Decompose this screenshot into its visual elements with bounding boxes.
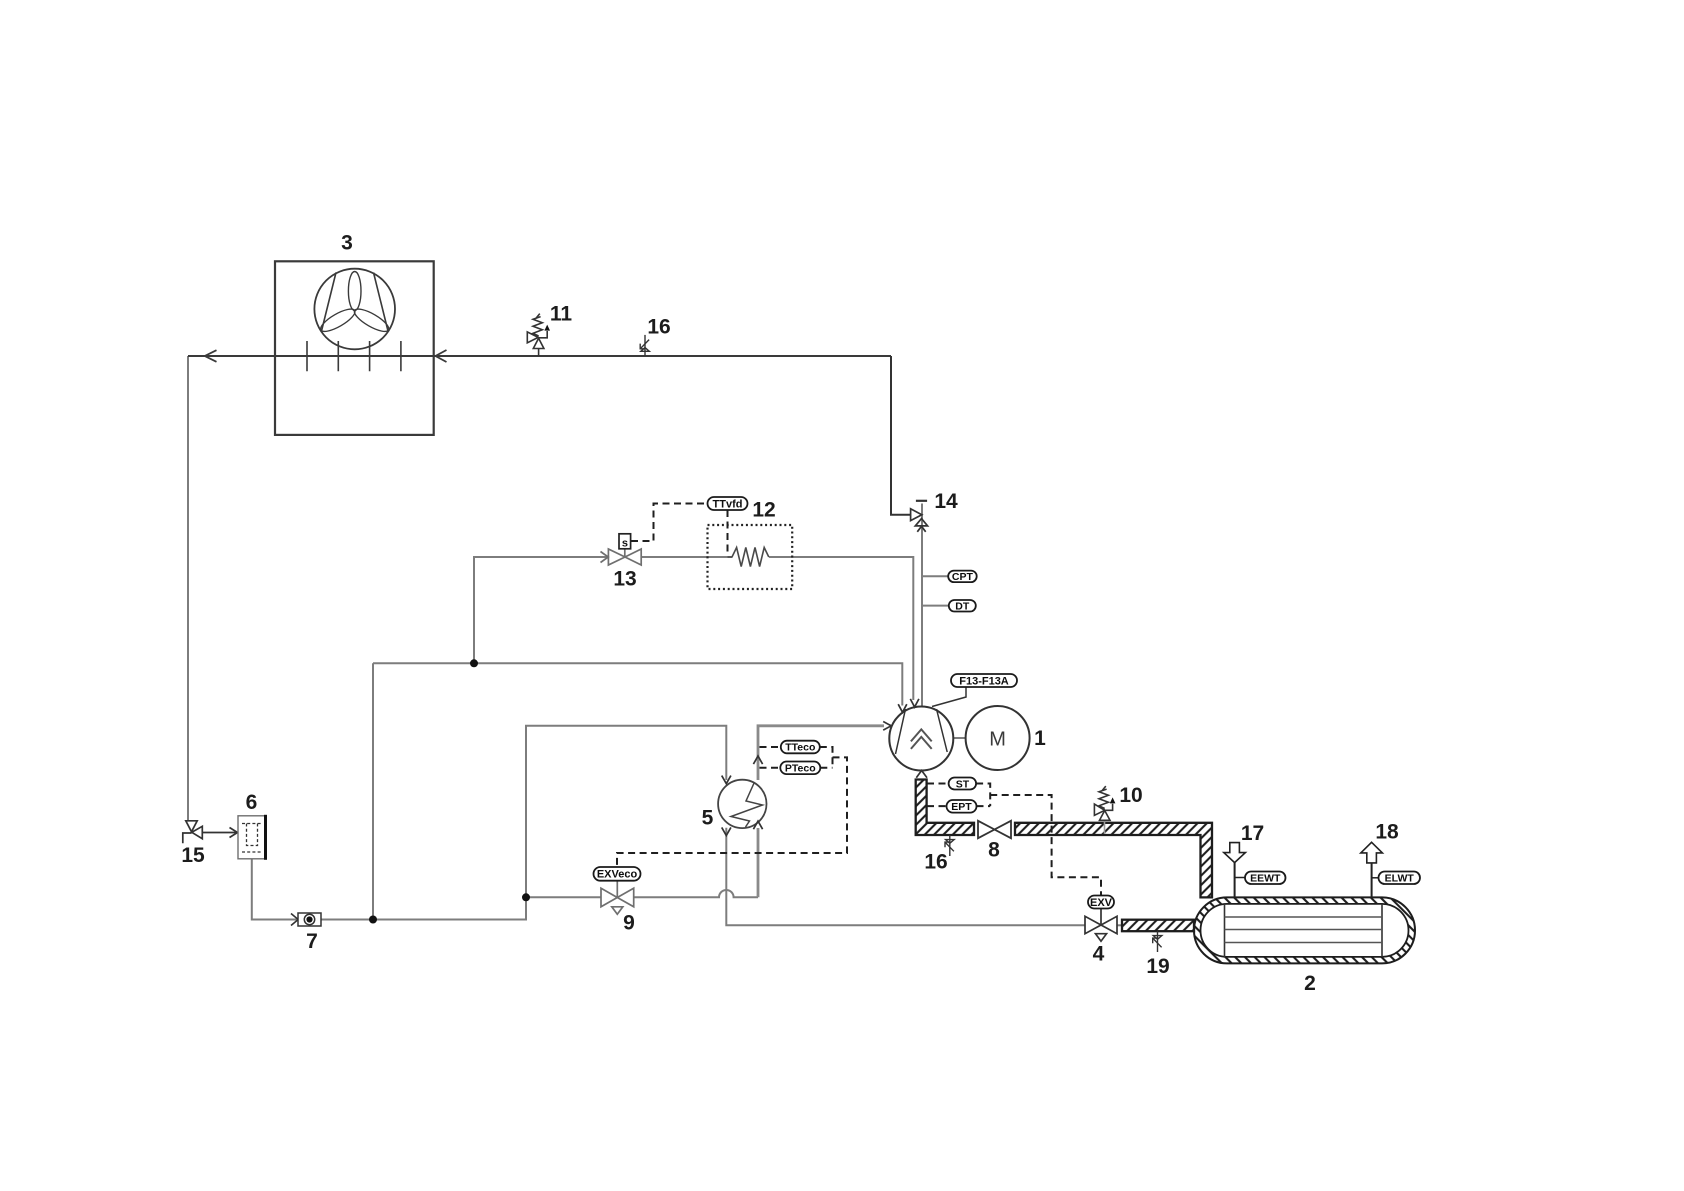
svg-text:6: 6	[246, 791, 258, 814]
svg-text:11: 11	[550, 303, 573, 326]
svg-text:EEWT: EEWT	[1250, 873, 1281, 885]
svg-text:9: 9	[623, 912, 635, 935]
svg-text:2: 2	[1304, 972, 1316, 995]
svg-text:EPT: EPT	[951, 801, 972, 813]
svg-text:TTvfd: TTvfd	[713, 498, 743, 510]
svg-text:ELWT: ELWT	[1385, 873, 1415, 885]
svg-text:5: 5	[702, 807, 714, 830]
svg-text:PTeco: PTeco	[785, 763, 816, 775]
svg-text:15: 15	[181, 844, 205, 867]
svg-text:4: 4	[1093, 943, 1105, 966]
svg-text:16: 16	[924, 851, 947, 874]
svg-text:1: 1	[1034, 727, 1046, 750]
svg-text:12: 12	[752, 499, 775, 522]
svg-text:16: 16	[647, 316, 670, 339]
svg-text:s: s	[622, 537, 628, 549]
svg-text:ST: ST	[956, 778, 970, 790]
svg-text:14: 14	[934, 490, 958, 513]
svg-text:CPT: CPT	[952, 571, 974, 583]
svg-text:8: 8	[988, 839, 1000, 862]
svg-text:7: 7	[306, 930, 318, 953]
svg-text:18: 18	[1375, 821, 1399, 844]
svg-text:F13-F13A: F13-F13A	[959, 675, 1009, 687]
svg-text:13: 13	[613, 568, 636, 591]
svg-text:EXV: EXV	[1090, 897, 1113, 909]
svg-text:19: 19	[1146, 955, 1169, 978]
svg-text:M: M	[989, 728, 1006, 750]
svg-text:TTeco: TTeco	[785, 742, 815, 754]
svg-text:10: 10	[1119, 784, 1142, 807]
svg-text:EXVeco: EXVeco	[597, 869, 638, 881]
svg-text:17: 17	[1241, 822, 1264, 845]
svg-text:3: 3	[341, 232, 353, 255]
svg-text:DT: DT	[955, 601, 970, 613]
